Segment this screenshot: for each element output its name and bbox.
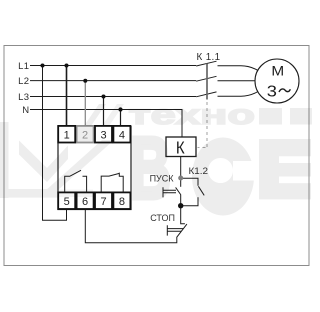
svg-text:К: К (176, 137, 185, 157)
svg-text:L2: L2 (18, 76, 29, 87)
svg-text:1: 1 (64, 129, 70, 141)
svg-text:М: М (271, 63, 284, 79)
svg-text:К 1.1: К 1.1 (197, 52, 221, 63)
svg-text:3: 3 (100, 129, 106, 141)
svg-text:L3: L3 (18, 92, 29, 103)
svg-text:3: 3 (267, 83, 277, 100)
svg-text:7: 7 (100, 196, 106, 208)
svg-text:8: 8 (119, 196, 125, 208)
svg-text:В: В (130, 120, 171, 217)
svg-text:5: 5 (64, 196, 70, 208)
svg-text:4: 4 (119, 129, 125, 141)
svg-text:2: 2 (82, 129, 88, 141)
svg-text:N: N (22, 105, 29, 116)
svg-text:L1: L1 (18, 61, 29, 72)
svg-text:6: 6 (82, 196, 88, 208)
